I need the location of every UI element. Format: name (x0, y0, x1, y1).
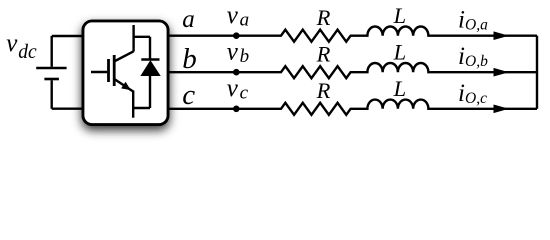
svg-text:b: b (182, 43, 197, 75)
svg-text:v: v (6, 30, 18, 57)
svg-text:R: R (316, 41, 331, 66)
svg-text:O,c: O,c (465, 90, 487, 107)
svg-text:i: i (458, 80, 465, 107)
svg-text:dc: dc (18, 42, 37, 63)
svg-text:v: v (227, 75, 239, 102)
svg-text:b: b (240, 46, 250, 67)
svg-text:O,a: O,a (465, 17, 488, 34)
svg-text:O,b: O,b (465, 53, 488, 70)
svg-text:v: v (227, 38, 239, 65)
svg-text:L: L (393, 39, 407, 64)
svg-text:L: L (393, 76, 407, 101)
svg-text:R: R (316, 5, 331, 30)
svg-text:c: c (240, 83, 249, 104)
svg-text:v: v (227, 2, 239, 29)
svg-text:a: a (240, 10, 250, 31)
svg-text:i: i (458, 7, 465, 34)
svg-text:L: L (393, 3, 407, 28)
svg-text:R: R (316, 78, 331, 103)
svg-text:a: a (182, 6, 195, 33)
svg-text:c: c (182, 79, 195, 111)
svg-text:i: i (458, 43, 465, 70)
